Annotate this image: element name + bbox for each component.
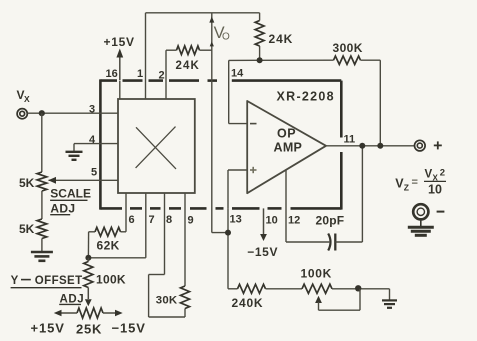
svg-text:3: 3 — [89, 104, 95, 116]
svg-text:O: O — [222, 32, 230, 43]
svg-text:62K: 62K — [97, 239, 120, 253]
svg-text:7: 7 — [149, 214, 155, 226]
svg-text:2: 2 — [440, 168, 445, 179]
svg-text:ADJ: ADJ — [60, 293, 85, 305]
svg-text:V: V — [425, 169, 433, 181]
svg-text:20pF: 20pF — [316, 214, 345, 228]
svg-text:−15V: −15V — [112, 321, 146, 336]
svg-text:XR-2208: XR-2208 — [277, 90, 335, 104]
svg-text:12: 12 — [288, 215, 300, 227]
svg-text:−15V: −15V — [247, 245, 278, 259]
svg-text:11: 11 — [344, 134, 356, 146]
svg-text:=: = — [412, 177, 418, 189]
svg-text:9: 9 — [188, 215, 194, 227]
svg-text:30K: 30K — [156, 295, 178, 307]
svg-text:SCALE: SCALE — [50, 187, 91, 201]
svg-text:Y: Y — [11, 275, 19, 287]
svg-text:13: 13 — [230, 214, 242, 226]
svg-text:OFFSET: OFFSET — [35, 275, 83, 287]
svg-text:+15V: +15V — [104, 35, 135, 49]
svg-text:24K: 24K — [269, 32, 294, 46]
svg-text:1: 1 — [137, 68, 143, 80]
svg-text:X: X — [24, 94, 30, 104]
svg-text:25K: 25K — [76, 322, 102, 337]
svg-text:24K: 24K — [176, 60, 200, 72]
svg-text:16: 16 — [106, 68, 118, 80]
svg-text:+15V: +15V — [31, 321, 65, 336]
svg-text:OP: OP — [277, 127, 296, 141]
svg-text:5K: 5K — [19, 222, 35, 236]
svg-text:Z: Z — [404, 183, 409, 193]
svg-text:ADJ: ADJ — [50, 202, 75, 216]
svg-text:6: 6 — [129, 214, 135, 226]
svg-text:240K: 240K — [232, 296, 264, 310]
svg-text:4: 4 — [89, 134, 96, 146]
svg-text:8: 8 — [166, 214, 172, 226]
svg-text:10: 10 — [266, 215, 278, 227]
svg-text:5K: 5K — [19, 176, 35, 190]
svg-text:AMP: AMP — [274, 141, 303, 155]
svg-text:10: 10 — [428, 183, 442, 197]
svg-text:2: 2 — [159, 70, 165, 82]
svg-text:5: 5 — [91, 167, 97, 179]
svg-text:100K: 100K — [96, 273, 126, 287]
svg-text:100K: 100K — [301, 267, 333, 281]
svg-text:14: 14 — [231, 68, 244, 80]
svg-text:300K: 300K — [333, 41, 363, 55]
